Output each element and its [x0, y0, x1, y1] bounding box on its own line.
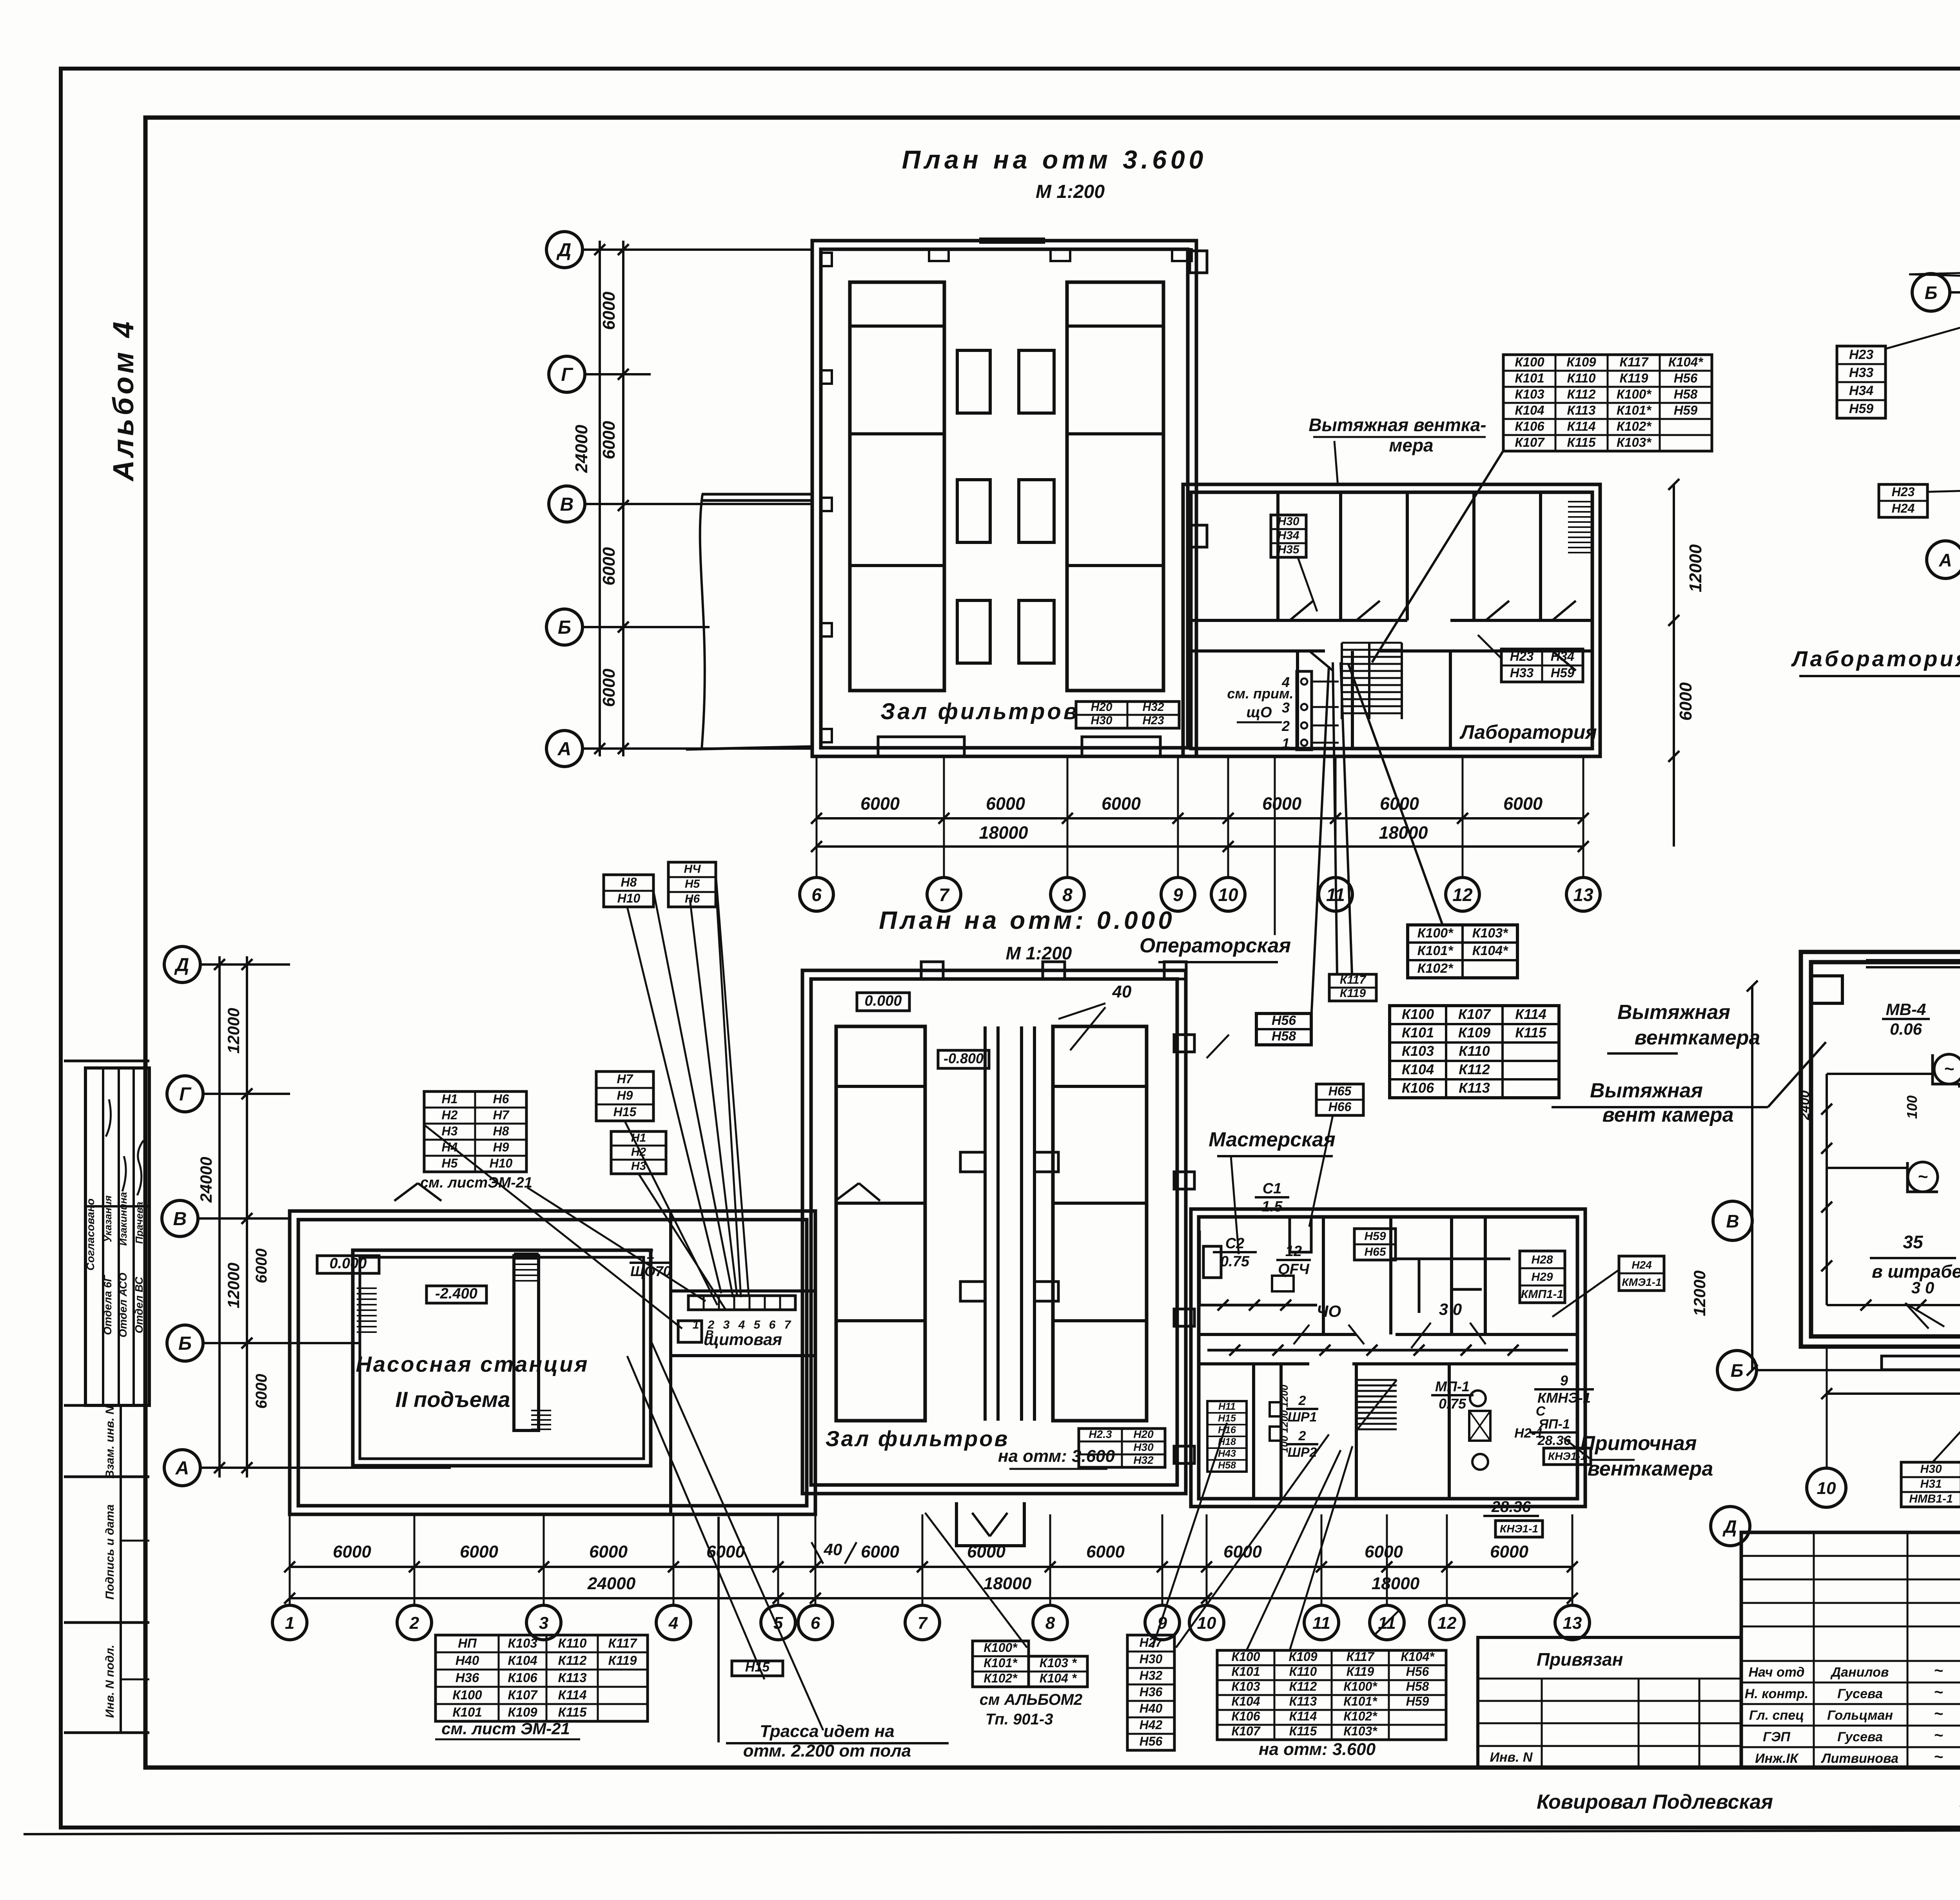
plan A grid circle G: [549, 356, 585, 392]
plan A leader from K table: [1372, 451, 1503, 662]
svg-text:К115: К115: [1567, 435, 1596, 450]
svg-text:К113: К113: [558, 1670, 587, 1685]
svg-text:Прачева: Прачева: [133, 1202, 145, 1244]
svg-text:3: 3: [723, 1318, 730, 1331]
svg-text:Лаборатория: Лаборатория: [1791, 646, 1960, 671]
leaders to panel room: [527, 1187, 706, 1301]
table pump bottom: [436, 1635, 648, 1721]
svg-text:К109: К109: [1458, 1024, 1490, 1041]
svg-text:12000: 12000: [224, 1263, 243, 1309]
svg-text:ЧО: ЧО: [1317, 1302, 1341, 1320]
table K100star cluster: [1408, 925, 1517, 978]
plan C wiring ticks: [1860, 1300, 1871, 1311]
plan D filter hall pilasters: [921, 962, 943, 979]
svg-text:-2.400: -2.400: [435, 1285, 477, 1302]
plan D ShR boxes: [1270, 1402, 1281, 1416]
svg-text:6000: 6000: [860, 794, 900, 814]
svg-text:Н5: Н5: [442, 1156, 458, 1170]
svg-text:К103*: К103*: [1343, 1724, 1377, 1738]
svg-text:Н59: Н59: [1674, 403, 1698, 417]
svg-text:6000: 6000: [460, 1542, 498, 1561]
plan D annex lower partitions: [1252, 1364, 1255, 1499]
svg-text:~: ~: [1934, 1748, 1943, 1766]
svg-text:К103: К103: [508, 1636, 537, 1650]
plan A roof window gap: [979, 237, 1045, 244]
svg-text:К110: К110: [1567, 371, 1596, 385]
plan C table leaders: [1933, 1317, 1960, 1462]
svg-text:К100*: К100*: [1417, 926, 1454, 941]
svg-text:Изакинина: Изакинина: [117, 1192, 129, 1246]
svg-text:9: 9: [1560, 1372, 1568, 1389]
svg-text:6000: 6000: [599, 669, 619, 707]
svg-text:Н10: Н10: [617, 891, 641, 905]
svg-text:НЧ: НЧ: [684, 863, 701, 876]
svg-text:24000: 24000: [572, 424, 591, 473]
svg-text:Лаборатория: Лаборатория: [1459, 721, 1597, 743]
plan A filter hall walls: [812, 241, 1196, 756]
svg-text:3 0: 3 0: [1911, 1278, 1934, 1297]
svg-text:Н56: Н56: [1406, 1664, 1429, 1679]
plan D table N28 N29 KMP: [1520, 1251, 1565, 1303]
svg-text:6000: 6000: [1223, 1542, 1262, 1561]
svg-text:0.000: 0.000: [329, 1255, 367, 1272]
svg-text:Отдел АСО: Отдел АСО: [117, 1273, 129, 1338]
svg-text:6: 6: [769, 1318, 776, 1331]
table N4 N5 N6: [668, 862, 716, 907]
plan C wiring: [1826, 1074, 1828, 1305]
plan B leaders left: [1886, 298, 1960, 349]
svg-text:6000: 6000: [599, 421, 619, 459]
svg-text:В: В: [173, 1209, 187, 1229]
svg-text:венткамера: венткамера: [1588, 1458, 1713, 1480]
svg-text:1: 1: [285, 1614, 294, 1633]
svg-text:К101*: К101*: [1343, 1694, 1377, 1708]
svg-text:Подпись и дата: Подпись и дата: [103, 1504, 116, 1599]
svg-text:~: ~: [1934, 1662, 1943, 1679]
plan A bottom dim line 18000s: [817, 845, 1583, 848]
long leaders from top plan: [1333, 662, 1337, 974]
svg-text:К103: К103: [1515, 387, 1544, 401]
plan A bottom extension lines: [816, 756, 818, 878]
plan D table N23: [1079, 1429, 1165, 1467]
svg-text:ГЭП: ГЭП: [1763, 1730, 1791, 1744]
svg-text:К114: К114: [1515, 1006, 1546, 1022]
svg-text:Н23: Н23: [1892, 485, 1915, 499]
svg-text:24000: 24000: [197, 1157, 215, 1203]
plan D pit rect: [514, 1256, 539, 1430]
svg-text:4: 4: [738, 1318, 745, 1331]
svg-text:18000: 18000: [1372, 1574, 1420, 1593]
svg-text:6000: 6000: [861, 1542, 899, 1561]
svg-text:Н4: Н4: [442, 1140, 458, 1154]
svg-text:Н59: Н59: [1551, 665, 1575, 680]
svg-text:Г: Г: [179, 1084, 192, 1105]
svg-text:7: 7: [939, 885, 950, 905]
plan A table K100 big: [1503, 355, 1712, 451]
svg-text:6: 6: [811, 1614, 820, 1633]
svg-text:Н7: Н7: [617, 1072, 634, 1086]
svg-text:6000: 6000: [1086, 1542, 1125, 1561]
leaders bottom to plan: [1152, 1423, 1227, 1648]
svg-text:6000: 6000: [599, 547, 619, 586]
plan A table N30 N34 N35: [1271, 515, 1306, 557]
svg-text:Н8: Н8: [493, 1124, 509, 1138]
svg-text:Вытяжная: Вытяжная: [1617, 1001, 1730, 1024]
svg-text:Н2-1: Н2-1: [1514, 1426, 1543, 1441]
svg-text:К104: К104: [1515, 403, 1544, 417]
svg-text:Н40: Н40: [1140, 1701, 1163, 1715]
svg-text:Д: Д: [556, 240, 572, 261]
svg-text:К112: К112: [1567, 387, 1596, 401]
svg-text:К113: К113: [1289, 1694, 1317, 1708]
plan C grid circle B left: [1717, 1351, 1757, 1390]
svg-text:Б: Б: [1731, 1360, 1744, 1381]
svg-text:КНЭ1-1: КНЭ1-1: [1500, 1523, 1538, 1535]
plan C bottom dim 6000: [1827, 1392, 1960, 1395]
svg-text:6: 6: [811, 885, 822, 905]
plan C bottom circles: [1807, 1468, 1846, 1507]
svg-text:Отдела 6Г: Отдела 6Г: [102, 1275, 114, 1335]
plan D stairs hatches: [357, 1287, 377, 1289]
svg-text:Н29: Н29: [1531, 1271, 1553, 1284]
svg-text:НП: НП: [458, 1636, 477, 1650]
svg-text:К107: К107: [1458, 1006, 1491, 1022]
svg-text:Н31: Н31: [1920, 1478, 1942, 1490]
svg-text:см АЛЬБОМ2: см АЛЬБОМ2: [980, 1691, 1083, 1708]
svg-text:Н56: Н56: [1272, 1013, 1296, 1028]
plan D filter basin left: [836, 1026, 925, 1421]
svg-text:М 1:200: М 1:200: [1006, 943, 1072, 963]
svg-text:К106: К106: [1231, 1709, 1260, 1723]
svg-text:К106: К106: [1402, 1080, 1434, 1096]
svg-text:18000: 18000: [1379, 823, 1428, 843]
svg-text:К115: К115: [1515, 1024, 1547, 1041]
svg-text:Трасса идет на: Трасса идет на: [760, 1722, 895, 1741]
svg-text:К114: К114: [1567, 419, 1596, 433]
svg-text:Нач отд: Нач отд: [1748, 1665, 1804, 1680]
plan D shchitovaya room: [669, 1211, 672, 1514]
svg-text:Н9: Н9: [493, 1140, 509, 1154]
svg-text:План на отм 3.600: План на отм 3.600: [902, 145, 1207, 174]
svg-text:Н24: Н24: [1632, 1259, 1652, 1271]
svg-text:Н43: Н43: [1218, 1448, 1236, 1459]
svg-text:6000: 6000: [986, 794, 1025, 814]
svg-text:Данилов: Данилов: [1830, 1665, 1889, 1680]
svg-text:К114: К114: [1289, 1709, 1317, 1723]
svg-text:Н2: Н2: [442, 1108, 458, 1122]
svg-text:Ковировал Подлевская: Ковировал Подлевская: [1537, 1791, 1773, 1813]
svg-text:мера: мера: [1389, 435, 1433, 455]
svg-text:Н56: Н56: [1674, 371, 1698, 385]
svg-text:Н30: Н30: [1133, 1441, 1154, 1453]
plan A annex walls: [1183, 484, 1600, 756]
svg-text:К110: К110: [558, 1636, 587, 1650]
svg-text:24000: 24000: [587, 1574, 636, 1593]
svg-text:К101: К101: [1515, 371, 1544, 385]
svg-text:КМНЭ-1: КМНЭ-1: [1537, 1390, 1591, 1406]
plan D right annex walls: [1191, 1209, 1585, 1507]
plan A center channel boxes: [957, 350, 990, 413]
svg-text:40: 40: [1112, 982, 1132, 1001]
svg-text:Н9: Н9: [617, 1088, 633, 1102]
svg-text:Вытяжная вентка-: Вытяжная вентка-: [1308, 415, 1486, 435]
svg-text:НМВ1-1: НМВ1-1: [1909, 1492, 1953, 1505]
svg-text:0.000: 0.000: [864, 993, 902, 1009]
plan D grid circles left: [164, 946, 200, 983]
svg-text:К109: К109: [1566, 355, 1596, 369]
svg-text:К103*: К103*: [1472, 926, 1509, 941]
svg-text:2: 2: [1298, 1393, 1306, 1408]
svg-text:Н32: Н32: [1142, 701, 1164, 714]
svg-text:К117: К117: [1340, 974, 1367, 986]
svg-text:МП-1: МП-1: [1435, 1378, 1470, 1394]
svg-text:Приточная: Приточная: [1581, 1432, 1697, 1455]
svg-text:Н34: Н34: [1278, 529, 1299, 542]
plan A filter basin right: [1067, 282, 1163, 691]
svg-text:Взам. инв. N: Взам. инв. N: [103, 1405, 116, 1479]
svg-text:Гусева: Гусева: [1837, 1730, 1883, 1744]
svg-text:Н58: Н58: [1272, 1029, 1296, 1044]
svg-text:Н58: Н58: [1406, 1679, 1429, 1693]
svg-text:6000: 6000: [967, 1542, 1005, 1561]
svg-text:Н36: Н36: [1140, 1685, 1163, 1699]
svg-text:Н23: Н23: [1510, 649, 1534, 664]
svg-text:7: 7: [784, 1318, 791, 1331]
plan C top wall windows: [1866, 959, 1960, 961]
svg-text:40: 40: [824, 1540, 842, 1559]
plan D level label -0.800: [938, 1050, 989, 1068]
bottom scan edge line: [24, 1829, 1960, 1834]
plan D left grid leaders: [200, 963, 290, 966]
svg-text:К109: К109: [508, 1705, 537, 1719]
svg-text:Н1: Н1: [442, 1092, 458, 1106]
svg-text:Н30: Н30: [1140, 1652, 1163, 1666]
svg-text:А: А: [1938, 550, 1952, 570]
plan C fan MV-4: [1934, 1054, 1960, 1084]
svg-text:Н11: Н11: [1218, 1401, 1236, 1412]
svg-text:~: ~: [1934, 1727, 1943, 1744]
svg-text:К110: К110: [1289, 1664, 1317, 1679]
svg-text:II подъема: II подъема: [395, 1387, 510, 1412]
svg-text:Н. контр.: Н. контр.: [1745, 1686, 1808, 1701]
svg-text:Указания: Указания: [102, 1195, 114, 1242]
svg-text:щО: щО: [1246, 704, 1272, 721]
svg-text:18000: 18000: [984, 1574, 1032, 1593]
svg-text:Н35: Н35: [1278, 543, 1299, 556]
svg-text:Д: Д: [174, 955, 189, 975]
svg-text:7: 7: [918, 1614, 928, 1633]
svg-text:К115: К115: [1289, 1724, 1318, 1738]
svg-text:К100: К100: [1231, 1650, 1260, 1664]
svg-text:6000: 6000: [1365, 1542, 1403, 1561]
svg-text:6000: 6000: [1262, 794, 1301, 814]
svg-text:Н10: Н10: [490, 1156, 513, 1170]
svg-text:8: 8: [1062, 885, 1073, 905]
svg-text:8: 8: [1045, 1614, 1055, 1633]
svg-text:Н20: Н20: [1091, 701, 1112, 714]
svg-text:Н30: Н30: [1920, 1463, 1942, 1476]
svg-text:венткамера: венткамера: [1635, 1026, 1760, 1049]
svg-text:К119: К119: [1620, 371, 1649, 385]
svg-text:11: 11: [1312, 1614, 1330, 1633]
svg-text:Привязан: Привязан: [1537, 1649, 1623, 1670]
svg-text:100: 100: [1904, 1095, 1920, 1119]
svg-text:К101: К101: [1231, 1664, 1260, 1679]
plan A grid circle B: [546, 609, 583, 645]
N15 box: [732, 1661, 783, 1676]
svg-text:К109: К109: [1289, 1650, 1317, 1664]
plan A bottom dim line 6000s: [817, 817, 1583, 819]
svg-text:К110: К110: [1459, 1043, 1490, 1059]
svg-text:А: А: [175, 1458, 189, 1479]
plan D corridor cable: [1207, 1349, 1568, 1352]
svg-text:Н59: Н59: [1849, 401, 1873, 416]
svg-text:щитовая: щитовая: [704, 1330, 782, 1349]
plan D masterskaya cable: [1200, 1304, 1317, 1307]
svg-text:К100*: К100*: [984, 1641, 1018, 1655]
svg-text:4: 4: [668, 1614, 678, 1633]
svg-text:12000: 12000: [1690, 1271, 1709, 1316]
svg-text:Н28: Н28: [1531, 1253, 1553, 1266]
svg-text:Согласовано: Согласовано: [84, 1198, 96, 1271]
svg-text:Н23: Н23: [1142, 714, 1164, 727]
svg-text:4: 4: [1281, 674, 1290, 690]
svg-text:К103: К103: [1402, 1043, 1434, 1059]
table N1-N10: [424, 1091, 526, 1172]
svg-text:Н8: Н8: [621, 875, 637, 889]
svg-text:Н6: Н6: [685, 892, 700, 905]
svg-text:2: 2: [1298, 1429, 1306, 1443]
svg-text:К106: К106: [1515, 419, 1544, 433]
plan A grid circle V: [549, 486, 585, 522]
svg-text:Инв. N подл.: Инв. N подл.: [103, 1645, 116, 1718]
svg-text:Н58: Н58: [1674, 387, 1698, 401]
svg-text:на отм: 3.600: на отм: 3.600: [1259, 1740, 1376, 1759]
svg-text:Н56: Н56: [1140, 1734, 1163, 1748]
svg-text:В: В: [705, 1328, 714, 1341]
svg-text:К103 *: К103 *: [1040, 1656, 1077, 1670]
svg-text:К101*: К101*: [1617, 403, 1652, 417]
svg-text:Н5: Н5: [685, 877, 701, 890]
svg-text:Насосная станция: Насосная станция: [356, 1352, 589, 1376]
plan A door marks: [1290, 601, 1313, 620]
svg-text:12: 12: [1452, 885, 1473, 905]
plan D annex corridor walls: [1199, 1333, 1356, 1336]
svg-text:К102*: К102*: [984, 1671, 1018, 1685]
svg-text:А: А: [557, 739, 572, 760]
svg-text:К117: К117: [1620, 355, 1649, 369]
svg-text:К104: К104: [508, 1653, 537, 1668]
plan D small box: [678, 1321, 702, 1342]
table K100star bottom-left: [973, 1641, 1029, 1687]
svg-text:Мастерская: Мастерская: [1209, 1128, 1335, 1151]
plan C bottom inner ledges: [1882, 1356, 1960, 1370]
plan B tables left: [1837, 346, 1886, 418]
title block signature table: [1741, 1532, 1960, 1768]
svg-text:Инв. N: Инв. N: [1490, 1750, 1533, 1765]
plan D panel row: [688, 1296, 795, 1310]
svg-text:К102*: К102*: [1617, 419, 1652, 433]
svg-text:Н3: Н3: [442, 1124, 458, 1138]
svg-text:Н23: Н23: [1849, 347, 1873, 362]
svg-text:Н7: Н7: [493, 1108, 510, 1122]
svg-text:6000: 6000: [589, 1542, 628, 1561]
plan A filter basin left: [850, 282, 944, 691]
svg-text:Д: Д: [1722, 1516, 1737, 1537]
svg-text:К104: К104: [1402, 1061, 1434, 1077]
svg-text:см. лист ЭМ-21: см. лист ЭМ-21: [441, 1719, 570, 1738]
svg-text:10: 10: [1197, 1614, 1216, 1633]
svg-text:отм. 2.200 от пола: отм. 2.200 от пола: [743, 1741, 911, 1760]
svg-text:К107: К107: [1231, 1724, 1261, 1738]
svg-text:План на отм: 0.000: План на отм: 0.000: [879, 906, 1175, 934]
svg-text:Г: Г: [561, 364, 573, 385]
plan D porch: [956, 1502, 1024, 1546]
plan D bottom grid circles: [272, 1605, 307, 1640]
svg-text:12: 12: [1437, 1614, 1457, 1633]
svg-text:К113: К113: [1459, 1080, 1490, 1096]
svg-text:К101: К101: [1402, 1024, 1434, 1041]
svg-text:1: 1: [1282, 735, 1290, 751]
svg-text:МВ-4: МВ-4: [1886, 1000, 1926, 1019]
svg-text:Гусева: Гусева: [1837, 1686, 1883, 1701]
svg-text:6000: 6000: [1676, 682, 1695, 721]
plan D annex stairs: [1357, 1379, 1397, 1381]
svg-text:С1: С1: [1263, 1180, 1282, 1197]
plan D small room table: [1207, 1401, 1247, 1472]
svg-text:В: В: [560, 494, 574, 515]
svg-text:К103: К103: [1231, 1679, 1260, 1693]
svg-text:Гольцман: Гольцман: [1827, 1708, 1893, 1723]
plan A right dim chain: [1673, 484, 1675, 847]
plan A stair hatch: [1342, 642, 1402, 644]
plan D table N65 N66: [1316, 1084, 1363, 1115]
plan A annex corridor: [1192, 619, 1407, 622]
svg-text:К112: К112: [1289, 1679, 1317, 1693]
svg-text:К104*: К104*: [1472, 943, 1509, 958]
svg-text:Н16: Н16: [1218, 1425, 1236, 1436]
svg-text:2: 2: [409, 1614, 419, 1633]
plan D pump station inner hall: [353, 1250, 651, 1466]
svg-text:Н30: Н30: [1091, 714, 1112, 727]
plan D wc cells: [1391, 1258, 1510, 1260]
svg-text:100 1200 1200: 100 1200 1200: [1278, 1385, 1290, 1453]
svg-text:Альбом 4: Альбом 4: [107, 319, 140, 482]
svg-text:2: 2: [1281, 718, 1290, 734]
svg-text:Тп. 901-3: Тп. 901-3: [985, 1711, 1053, 1728]
svg-text:Н34: Н34: [1551, 649, 1575, 664]
plan D table N24 KME: [1619, 1256, 1664, 1291]
svg-text:К119: К119: [1347, 1664, 1374, 1679]
svg-text:Отдел ВС: Отдел ВС: [133, 1276, 145, 1333]
svg-text:К106: К106: [508, 1670, 537, 1685]
svg-text:Н58: Н58: [1218, 1460, 1236, 1471]
svg-text:К114: К114: [558, 1688, 587, 1702]
svg-text:Н34: Н34: [1849, 383, 1873, 398]
svg-text:Н3: Н3: [631, 1160, 646, 1173]
table N27 column: [1127, 1635, 1174, 1750]
plan C dim 12000: [1751, 986, 1753, 1370]
svg-text:6000: 6000: [253, 1249, 270, 1284]
svg-text:6000: 6000: [1490, 1542, 1528, 1561]
svg-text:КМЭ1-1: КМЭ1-1: [1622, 1276, 1661, 1288]
svg-text:Н33: Н33: [1510, 665, 1534, 680]
plan C room walls: [1801, 952, 1960, 1347]
svg-text:~: ~: [1934, 1705, 1943, 1722]
svg-text:Н65: Н65: [1328, 1084, 1352, 1098]
svg-text:Н30: Н30: [1278, 515, 1299, 528]
plan D pump station walls: [290, 1211, 815, 1514]
